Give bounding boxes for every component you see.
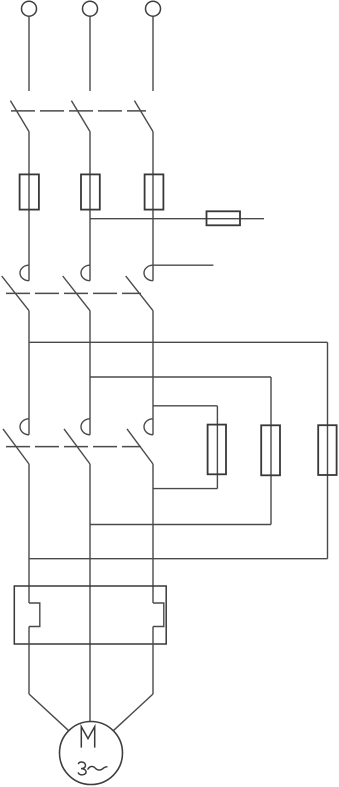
contactor KM2 linkage (dashed) <box>6 446 141 448</box>
overload FR heater element phase3 (jog) <box>153 603 164 627</box>
wire KM2 pole2 down to motor <box>89 464 91 722</box>
wire L1 to switch <box>28 17 30 91</box>
fuse FU4 (horizontal, control circuit) <box>207 211 241 225</box>
wire KM1 pole3 to KM2 pole3 <box>152 311 154 435</box>
motor label M <box>81 727 94 748</box>
contactor KM1 linkage (dashed) <box>6 292 141 294</box>
wire QS pole3 to contactor KM1 pole3 (through fuse FU3) <box>152 132 154 281</box>
wire QS pole2 to contactor KM1 pole2 (through fuse FU2) <box>89 132 91 281</box>
disconnector QS pole 1 blade <box>10 101 29 132</box>
contactor KM1 pole 3 blade <box>126 276 153 311</box>
motor label 3~ <box>78 762 107 775</box>
wire diagonal phase3 into motor <box>113 694 153 731</box>
contactor KM1 pole 2 blade <box>63 276 90 311</box>
contactor KM2 pole 1 fixed-contact arc <box>20 419 29 435</box>
resistor R2 <box>261 425 280 475</box>
contactor KM1 pole 2 fixed-contact arc <box>81 265 90 281</box>
resistor R1 <box>208 425 226 475</box>
wire resistor R2 bottom return to phase2 <box>90 524 271 526</box>
wire phase2 to resistor R2 branch (top) <box>90 376 271 378</box>
wire resistor R3 bottom return to phase1 <box>29 558 328 560</box>
wire tap from KM1 pole3 fixed contact <box>153 264 213 266</box>
terminal L1 <box>22 1 37 16</box>
wire L3 to switch <box>152 17 154 91</box>
contactor KM2 pole 2 fixed-contact arc <box>81 419 90 435</box>
thermal overload relay FR box <box>14 586 166 644</box>
terminal L3 <box>146 1 161 16</box>
wire FR phase3 down to motor corner <box>152 627 154 695</box>
wire resistor R3 branch vertical <box>327 342 329 558</box>
contactor KM1 pole 1 fixed-contact arc <box>20 265 29 281</box>
motor M circle <box>60 722 123 785</box>
contactor KM2 pole 2 blade <box>64 429 90 464</box>
wire phase1 to resistor R3 branch (top) <box>29 341 328 343</box>
disconnector QS linkage (dashed) <box>11 110 146 112</box>
contactor KM2 pole 3 fixed-contact arc <box>144 419 153 435</box>
wire phase3 to resistor R1 branch (top) <box>153 405 217 407</box>
wire resistor R1 branch vertical <box>216 406 218 489</box>
contactor KM1 pole 1 blade <box>2 276 29 311</box>
contactor KM2 pole 3 blade <box>127 429 153 464</box>
disconnector QS pole 2 blade <box>71 101 90 132</box>
wire resistor R2 branch vertical <box>270 377 272 525</box>
wire FR phase1 down to motor corner <box>28 627 30 695</box>
wire diagonal phase1 into motor <box>29 694 69 731</box>
fuse FU2 <box>81 174 100 209</box>
disconnector QS pole 3 blade <box>134 101 153 132</box>
wire KM1 pole2 to KM2 pole2 <box>89 311 91 435</box>
contactor KM1 pole 3 fixed-contact arc <box>144 265 153 281</box>
overload FR heater element phase1 (jog) <box>29 603 40 627</box>
wire tap to control circuit (node below FU2) <box>90 218 264 220</box>
fuse FU3 <box>145 174 164 209</box>
fuse FU1 <box>20 174 39 209</box>
resistor R3 <box>318 425 336 475</box>
wire KM1 pole1 to KM2 pole1 <box>28 311 30 435</box>
wire KM2 pole1 down to overload FR <box>28 464 30 603</box>
terminal L2 <box>83 1 98 16</box>
wire QS pole1 to contactor KM1 pole1 (through fuse FU1) <box>28 132 30 281</box>
wire L2 to switch <box>89 17 91 91</box>
wire resistor R1 bottom return to phase3 <box>153 488 217 490</box>
contactor KM2 pole 1 blade <box>3 429 29 464</box>
wire KM2 pole3 down to overload FR <box>152 464 154 603</box>
